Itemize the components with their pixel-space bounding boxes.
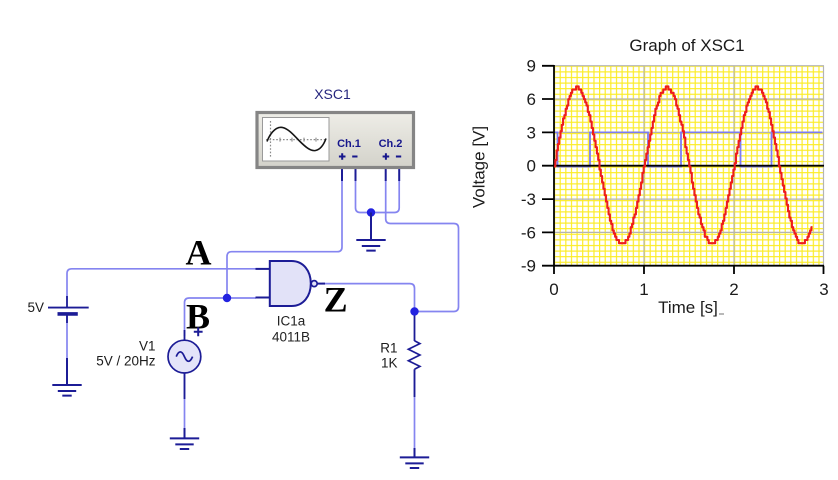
major gridline t=1 <box>643 66 645 266</box>
svg-text:Ch.1: Ch.1 <box>337 138 361 150</box>
battery V2 lead dark segments <box>66 296 68 323</box>
wire R1 bottom to ground <box>414 370 416 457</box>
source V1 lead dark segments <box>184 330 186 399</box>
svg-text:3: 3 <box>819 280 828 299</box>
svg-text:0: 0 <box>549 280 558 299</box>
wire Ch.1+ to node B riser <box>227 180 342 298</box>
svg-text:Time [s]: Time [s] <box>658 298 718 317</box>
svg-text:IC1a: IC1a <box>277 314 306 329</box>
nand gate IC1a body <box>270 261 311 306</box>
pin + (Ch.2) <box>383 153 390 160</box>
svg-text:XSC1: XSC1 <box>314 86 351 102</box>
node B junction dot <box>223 294 231 302</box>
battery 5V bottom plate <box>58 312 78 316</box>
x-axis (0 V) black line <box>554 165 824 167</box>
svg-text:-9: -9 <box>521 257 536 276</box>
screen axis ticks <box>280 138 316 142</box>
red sine trace (Ch.1 input B) <box>554 86 813 243</box>
wire Ch.2- to ground node <box>371 180 399 213</box>
wire Ch.2+ to node Z <box>386 180 459 312</box>
y-axis ticks <box>542 66 554 266</box>
resistor R1 zigzag <box>408 341 420 369</box>
svg-text:1K: 1K <box>381 356 398 371</box>
svg-text:2: 2 <box>729 280 738 299</box>
screen dotted horizontal axis <box>266 139 326 141</box>
svg-text:5V: 5V <box>27 300 44 315</box>
svg-text:5V / 20Hz: 5V / 20Hz <box>96 354 156 369</box>
resistor R1 lead top <box>414 312 416 342</box>
bottom axis black line <box>553 265 824 267</box>
pin - (Ch.1) <box>352 156 357 158</box>
svg-text:4011B: 4011B <box>272 330 310 345</box>
y-axis black line <box>553 65 555 266</box>
source V1 plus sign <box>194 327 203 336</box>
wire B net: V1 to gate input B <box>185 298 257 336</box>
svg-text:A: A <box>186 233 212 273</box>
ground (R1) <box>400 448 429 468</box>
wire V1 negative to ground <box>184 373 186 438</box>
pin - (Ch.2) <box>396 156 401 158</box>
ground (scope) stem <box>370 213 372 241</box>
major gridline y=-3 <box>554 198 824 200</box>
wire battery negative to ground <box>66 314 68 384</box>
scope pin stub Ch.1- <box>355 169 357 181</box>
scope pin stub Ch.1+ <box>341 169 343 181</box>
battery 5V top plate <box>48 307 89 309</box>
node Z junction dot <box>410 307 418 315</box>
major gridline top edge <box>554 65 824 67</box>
svg-text:-3: -3 <box>521 190 536 209</box>
svg-text:V1: V1 <box>139 339 156 354</box>
major gridline y=+3 <box>554 131 824 133</box>
screen mini sine <box>267 127 326 150</box>
resistor R1 lead bottom <box>414 369 416 397</box>
major gridline y=-6 <box>554 231 824 233</box>
major gridline t=2 <box>733 66 735 266</box>
screen dotted vertical axis <box>270 121 272 158</box>
source V1 sine symbol <box>176 352 192 361</box>
svg-text:6: 6 <box>527 90 536 109</box>
nand gate output bubble <box>311 281 317 287</box>
wire Z net: gate output to R1 node <box>322 284 415 312</box>
pin + (Ch.1) <box>339 153 346 160</box>
nand gate IC1a input stub A <box>256 268 271 270</box>
nand gate output stub <box>317 283 325 285</box>
ground (battery) <box>52 358 81 396</box>
oscilloscope screen <box>263 118 330 162</box>
stray cursor artifact <box>719 313 724 315</box>
blue square-wave trace (Ch.2 output Z) <box>555 132 823 166</box>
svg-text:Voltage [V]: Voltage [V] <box>470 126 489 208</box>
ground (scope) bars <box>356 240 385 251</box>
svg-text:R1: R1 <box>380 341 397 356</box>
major gridline y=+6 <box>554 98 824 100</box>
wire A net: battery to gate input A <box>67 269 256 300</box>
svg-text:-6: -6 <box>521 223 536 242</box>
svg-text:Graph of XSC1: Graph of XSC1 <box>629 36 744 55</box>
svg-text:0: 0 <box>527 157 536 176</box>
wire Ch.1- to ground node <box>356 180 372 213</box>
major gridline right edge <box>823 66 825 266</box>
nand gate IC1a input stub B <box>256 297 271 299</box>
ground node dot (scope) <box>367 208 375 216</box>
graph plot background grid <box>554 66 824 266</box>
svg-text:1: 1 <box>639 280 648 299</box>
svg-text:Ch.2: Ch.2 <box>379 138 403 150</box>
svg-text:9: 9 <box>527 57 536 76</box>
scope pin stub Ch.2+ <box>385 169 387 181</box>
oscilloscope XSC1 box <box>257 113 414 168</box>
scope pin stub Ch.2- <box>398 169 400 181</box>
x-axis ticks <box>554 266 824 274</box>
source V1 circle <box>168 340 201 373</box>
svg-text:3: 3 <box>527 123 536 142</box>
svg-text:Z: Z <box>324 279 348 319</box>
ground (V1) <box>170 428 199 449</box>
